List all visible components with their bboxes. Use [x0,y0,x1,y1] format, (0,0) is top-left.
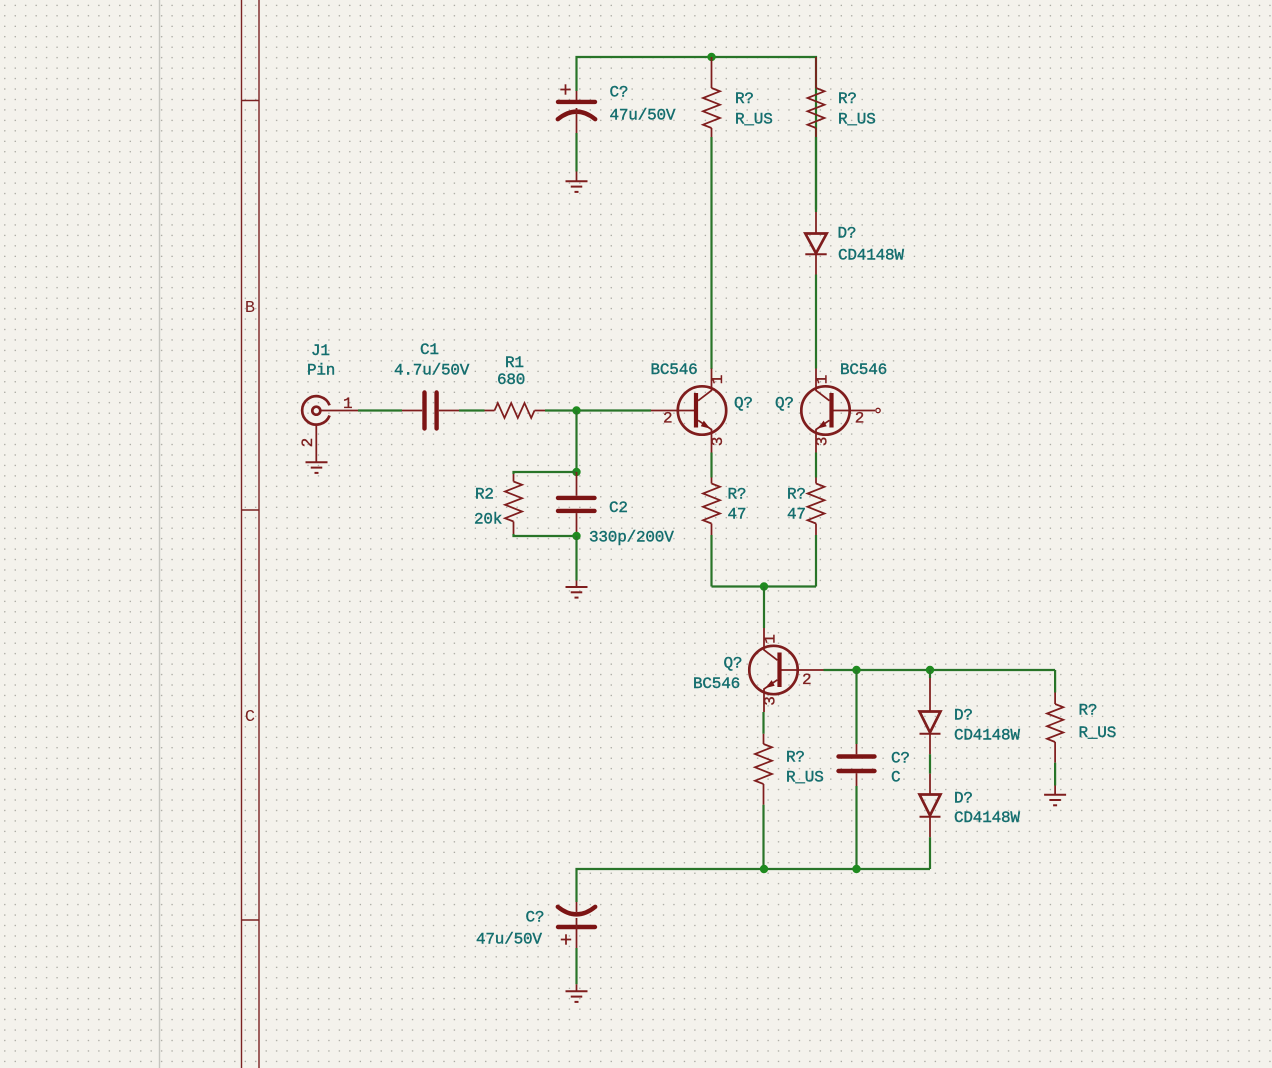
capacitor C? 47u/50V top-left [558,84,595,133]
svg-text:C1: C1 [420,341,439,359]
svg-text:D?: D? [954,790,973,808]
junction R1 node [572,406,580,414]
wire Q3 base to right [824,669,1056,671]
wire junction down to Q3 [763,587,765,629]
junction base/diode node [926,666,934,674]
svg-text:2: 2 [663,410,672,428]
wire emitter resistor to bottom rail [762,805,764,869]
svg-text:47u/50V: 47u/50V [610,107,676,125]
wire J1 to C1 [358,409,402,411]
svg-text:D?: D? [838,225,857,243]
svg-text:CD4148W: CD4148W [954,727,1020,745]
transistor Q2 BC546 (mirrored) [801,369,875,453]
wire lower diode to bottom rail [929,837,931,869]
ground bottom [566,984,588,1002]
svg-text:R?: R? [1079,702,1098,720]
wire bottom cap to ground [575,948,577,984]
svg-text:C?: C? [891,750,910,768]
junction top rail [707,53,715,61]
wire cap to ground [575,133,577,172]
svg-text:R?: R? [735,90,754,108]
wire C branch down [855,670,857,744]
svg-text:680: 680 [497,371,525,389]
connector J1 Pin [302,396,358,462]
wire top bracket to R2 [514,472,577,474]
junction bottom rail right [852,865,860,873]
svg-text:R_US: R_US [1079,724,1117,742]
wire emitter bus [712,585,817,587]
resistor R2 20k [505,474,522,534]
svg-text:R?: R? [838,90,857,108]
svg-text:R_US: R_US [735,111,773,129]
wire Q3 emitter down [762,712,764,734]
svg-text:C2: C2 [609,499,628,517]
left margin grey line [159,0,161,1068]
resistor R? 47 (left) [703,478,720,536]
svg-text:BC546: BC546 [651,361,698,379]
wire diode to Q2 collector [815,275,817,369]
svg-text:2: 2 [802,671,811,689]
junction C2 bottom [572,532,580,540]
wire C2 node to ground [575,536,577,581]
resistor R? R_US (left, x=711.5) [703,57,720,137]
svg-text:R2: R2 [475,486,494,504]
wire top rail [577,57,817,212]
resistor R? R_US (far right) [1047,693,1063,763]
svg-text:47: 47 [728,506,747,524]
svg-text:BC546: BC546 [693,675,740,693]
svg-text:2: 2 [855,410,864,428]
diode D? CD4148W (lower of pair) [920,774,941,838]
wire right branch [1054,670,1056,693]
svg-text:BC546: BC546 [840,361,887,379]
unconnected pin circle (Q2 base) [876,408,880,412]
wire R47 right to bottom node [815,535,817,587]
ground J1 [306,462,328,473]
svg-text:Pin: Pin [307,362,335,380]
svg-text:47u/50V: 47u/50V [476,931,542,949]
wire diode branch [929,670,931,678]
wire Q2 emitter to R47 right [815,453,817,478]
wire Q1 emitter to R47 [710,453,712,478]
svg-text:4.7u/50V: 4.7u/50V [394,362,470,380]
svg-text:J1: J1 [311,342,330,360]
svg-text:47: 47 [787,506,806,524]
svg-text:Q?: Q? [775,395,794,413]
capacitor C? C [839,744,875,786]
svg-text:1: 1 [762,634,780,643]
capacitor C? 47u/50V bottom (flipped) [558,902,595,948]
junction R2/C2 top [572,468,580,476]
svg-text:R_US: R_US [786,769,824,787]
svg-text:Q?: Q? [734,395,753,413]
junction emitter bus [760,582,768,590]
svg-text:3: 3 [709,437,727,446]
svg-text:3: 3 [762,696,780,705]
svg-text:1: 1 [814,375,832,384]
wire C1 to R1 [459,409,485,411]
svg-text:Q?: Q? [724,655,743,673]
wire junction down to R2/C2 node [575,411,577,473]
transistor Q1 BC546 [651,369,726,453]
wire mid cap to bottom rail [855,786,857,869]
wire bottom rail [577,869,931,902]
wire right resistor to diode [815,137,817,210]
svg-text:330p/200V: 330p/200V [589,529,674,547]
diode D? CD4148W (upper of pair) [920,678,941,754]
svg-text:20k: 20k [474,511,502,529]
ground top-left [566,172,588,192]
diode D? CD4148W (top right) [805,212,826,275]
resistor R1 680 [485,403,546,418]
svg-text:1: 1 [709,375,727,384]
svg-text:R_US: R_US [838,111,876,129]
wire R47 left to bottom node [710,535,712,587]
svg-text:C?: C? [526,909,545,927]
wire bottom bracket R2 [514,534,577,536]
resistor R? R_US (right, x=816) [808,57,825,137]
wire R1 to Q1 base [545,409,651,411]
junction bottom rail left [760,865,768,873]
ground far right [1044,786,1066,806]
ground below C2 [566,581,588,598]
svg-text:CD4148W: CD4148W [954,809,1020,827]
svg-text:D?: D? [954,707,973,725]
capacitor C1 4.7u/50V [402,393,459,429]
svg-text:2: 2 [299,438,317,447]
svg-text:R?: R? [786,749,805,767]
resistor R? 47 (right) [808,478,825,536]
resistor R? R_US (under Q3) [755,734,772,805]
sheet border frame left lines [242,0,260,1068]
svg-text:CD4148W: CD4148W [838,247,904,265]
svg-text:B: B [245,299,255,318]
wire left resistor to Q1 collector [710,137,712,369]
capacitor C2 330p/200V [558,472,595,536]
svg-text:1: 1 [343,395,352,413]
junction base/C node [852,666,860,674]
wire between diodes [929,754,931,774]
svg-text:C?: C? [610,84,629,102]
svg-text:R?: R? [728,486,747,504]
svg-text:C: C [245,708,255,727]
svg-text:C: C [891,769,900,787]
svg-text:R1: R1 [505,354,524,372]
svg-text:3: 3 [814,437,832,446]
svg-text:R?: R? [787,486,806,504]
transistor Q3 BC546 (mirrored) [749,628,823,712]
wire far right resistor to ground [1054,763,1056,786]
